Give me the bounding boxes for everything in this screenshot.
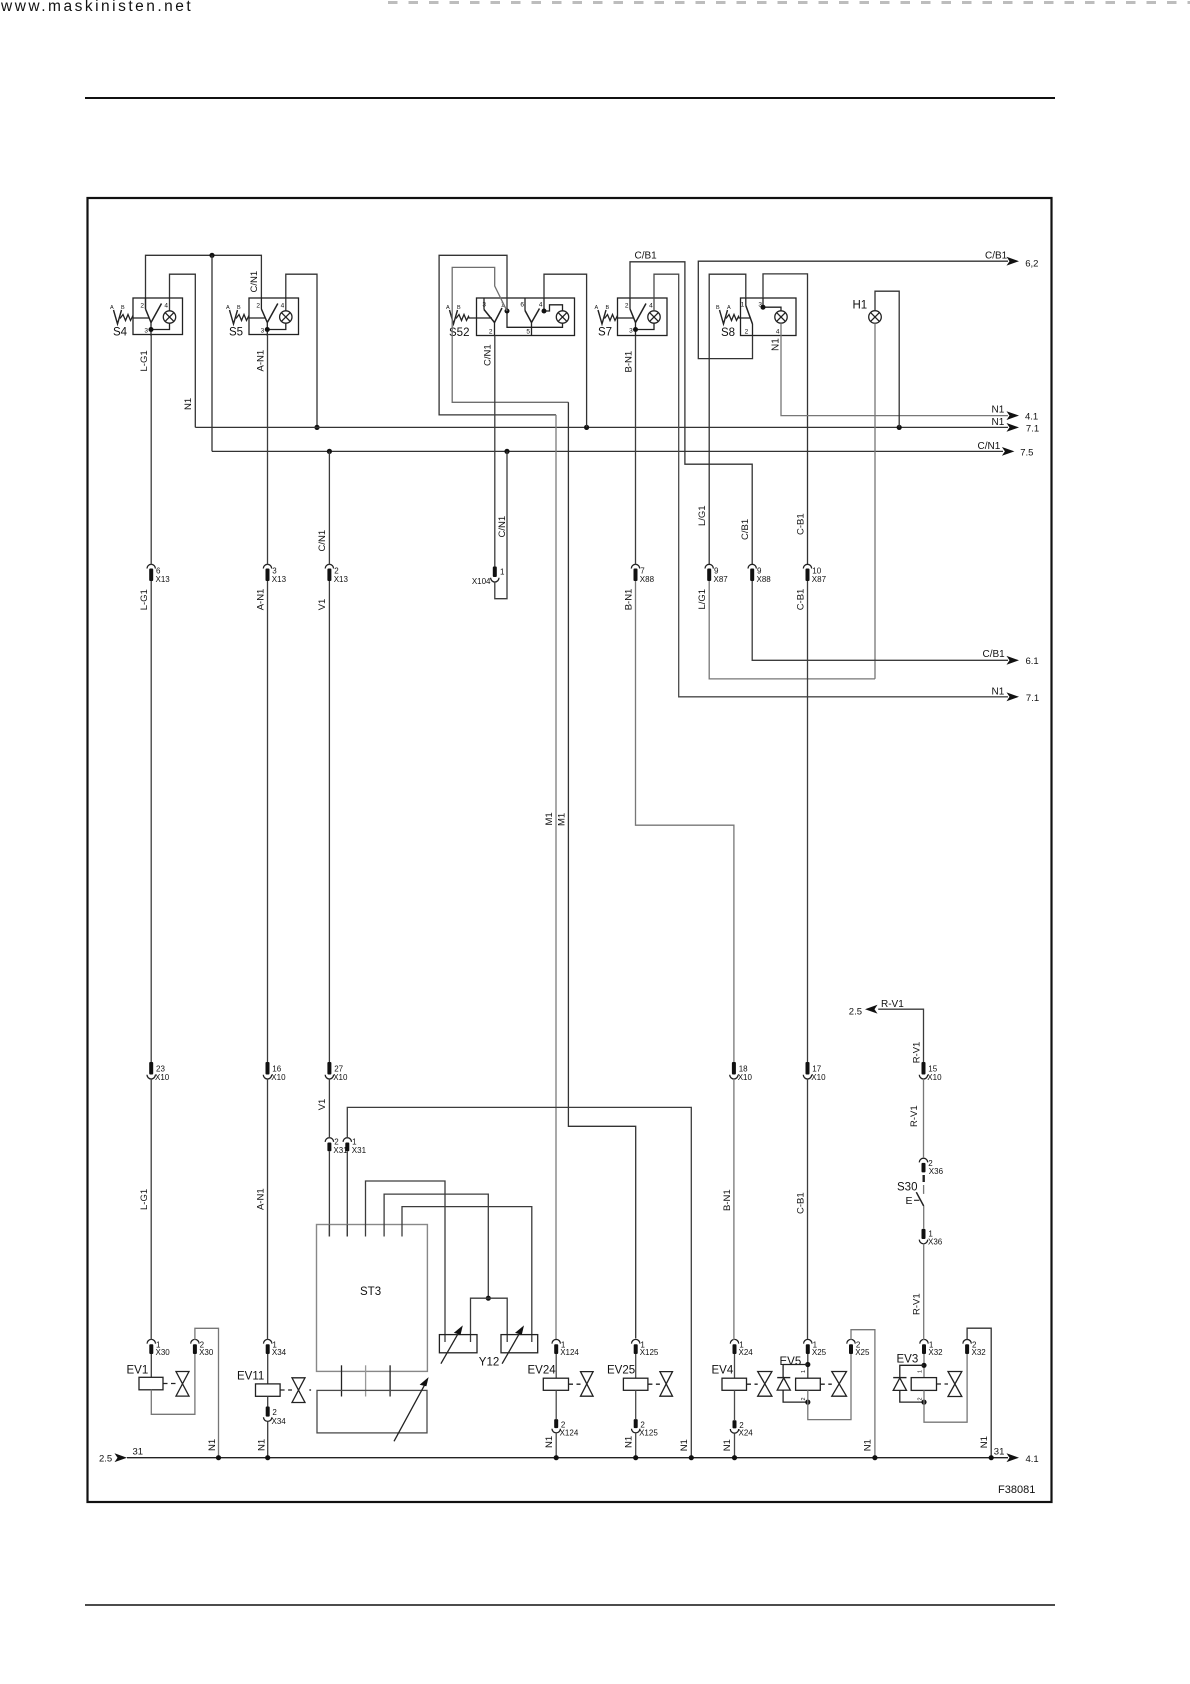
svg-text:C-B1: C-B1 [795, 589, 806, 611]
pin stub ST3 bottom 3 [389, 1365, 391, 1396]
svg-text:2: 2 [140, 303, 144, 310]
svg-text:3: 3 [261, 328, 265, 335]
connector X32 pin 1 [920, 1339, 928, 1343]
svg-text:N1: N1 [544, 1436, 555, 1448]
svg-text:4.1: 4.1 [1025, 412, 1038, 423]
wire ST3 pin5 jog to Y12 right [402, 1207, 532, 1342]
svg-text:N1: N1 [623, 1436, 634, 1448]
pin stub ST3 top 2 [346, 1225, 348, 1237]
svg-text:C/B1: C/B1 [985, 251, 1008, 262]
connector X125 pin 2 [634, 1419, 638, 1428]
svg-text:X88: X88 [640, 575, 655, 584]
connector X30 pin 1 [147, 1339, 155, 1343]
svg-text:B-N1: B-N1 [623, 351, 634, 373]
svg-text:A: A [727, 305, 731, 311]
svg-text:X25: X25 [812, 1348, 827, 1357]
arrow 31 from 2.5 [115, 1453, 128, 1462]
top scan dashes [388, 1, 1190, 4]
svg-text:N1: N1 [863, 1439, 874, 1451]
svg-text:H1: H1 [853, 300, 868, 312]
arrow Y12 left variable [441, 1329, 461, 1364]
svg-text:X10: X10 [927, 1073, 942, 1082]
svg-text:N1: N1 [679, 1439, 690, 1451]
svg-text:V1: V1 [317, 599, 328, 611]
connector X13 pin 2 [325, 564, 333, 568]
wire S8 lamp N1 to 4.1 arrow [781, 323, 1008, 415]
svg-text:7.1: 7.1 [1026, 424, 1039, 435]
svg-text:C/N1: C/N1 [497, 516, 508, 538]
svg-text:R-V1: R-V1 [909, 1105, 920, 1127]
connector X104 pin 1 [493, 567, 497, 578]
wire H1 top to N1 bus [875, 291, 899, 427]
wire C/B1 X88:9 to 6.1 arrow [752, 581, 1008, 660]
svg-text:3: 3 [144, 328, 148, 335]
svg-text:2.5: 2.5 [99, 1454, 112, 1465]
svg-text:L/G1: L/G1 [697, 505, 708, 526]
node rail EV5 [872, 1455, 877, 1460]
svg-text:S30: S30 [897, 1182, 917, 1194]
wire H1 bottom to L/G1 [874, 323, 876, 679]
svg-text:L-G1: L-G1 [139, 589, 150, 610]
svg-text:X88: X88 [757, 575, 772, 584]
connector X36 pin 2 [919, 1158, 927, 1162]
arrow N1 to 4.1 [1007, 411, 1020, 420]
SECTION:CONNROW1 [147, 564, 827, 586]
connector X124 pin 2 [554, 1419, 558, 1428]
svg-text:6,2: 6,2 [1025, 259, 1038, 270]
svg-text:N1: N1 [992, 686, 1005, 697]
wire A-N1 S5 to X13:3 [267, 335, 269, 565]
svg-text:B: B [237, 305, 241, 311]
svg-text:A: A [110, 305, 114, 311]
svg-text:L-G1: L-G1 [139, 1189, 150, 1210]
switch S8 [720, 298, 797, 336]
wire S52 pin4 to N1 bus [544, 274, 587, 427]
wire R-V1 X10:15 to X36:2 [923, 1079, 925, 1158]
svg-text:X125: X125 [640, 1348, 659, 1357]
arrow N1 to 7.1 [1007, 423, 1020, 432]
svg-text:N1: N1 [992, 417, 1005, 428]
svg-text:C/B1: C/B1 [983, 649, 1006, 660]
svg-text:5: 5 [526, 329, 530, 336]
connector X24 pin 2 [733, 1420, 737, 1428]
svg-text:X10: X10 [271, 1073, 286, 1082]
svg-text:X24: X24 [739, 1429, 754, 1438]
wire C/N1-V1 bus tap to X13:2 [328, 451, 330, 564]
connector X10 pin 16 [266, 1062, 270, 1075]
svg-text:N1: N1 [207, 1439, 218, 1451]
pin stub ST3 bottom 2 [365, 1365, 367, 1396]
svg-text:C-B1: C-B1 [795, 513, 806, 535]
wire Y12 centre U split [471, 1298, 508, 1342]
node rail EV3 [989, 1455, 994, 1460]
svg-text:B-N1: B-N1 [623, 589, 634, 611]
wire B-N1 X10:18 to X24:1 [733, 1079, 735, 1340]
svg-text:X25: X25 [855, 1348, 870, 1357]
wire C/N1 dropper from top bus [211, 255, 213, 451]
svg-text:N1: N1 [992, 405, 1005, 416]
wire S52 pin1 feed A [439, 255, 556, 415]
svg-text:C/N1: C/N1 [249, 271, 260, 293]
svg-text:X10: X10 [155, 1073, 170, 1082]
node rail EV24 [554, 1455, 559, 1460]
connector X10 pin 15 [922, 1062, 926, 1075]
svg-text:B-N1: B-N1 [722, 1189, 733, 1211]
svg-text:X10: X10 [333, 1073, 348, 1082]
svg-text:X13: X13 [272, 575, 287, 584]
svg-text:EV4: EV4 [712, 1365, 734, 1377]
svg-text:1: 1 [917, 1370, 923, 1373]
switch S5 [230, 298, 299, 336]
svg-text:4: 4 [164, 303, 168, 310]
connector X10 pin 27 [327, 1062, 331, 1075]
sensor box ST3 lower [317, 1390, 427, 1433]
connector X36 pin 1 [922, 1229, 926, 1239]
svg-text:A: A [595, 305, 599, 311]
wire L-G1 X13:6 to X10:23 [150, 581, 152, 1062]
switch S4 [114, 298, 183, 336]
arrow N1 to 7.1 lower [1007, 692, 1020, 701]
svg-text:X36: X36 [928, 1238, 943, 1247]
svg-text:S5: S5 [229, 327, 243, 339]
wire V1 X31:2 to ST3 [328, 1151, 330, 1236]
node Y12 centre junction [486, 1296, 491, 1301]
svg-text:B: B [606, 305, 610, 311]
svg-text:X30: X30 [156, 1348, 171, 1357]
svg-text:EV24: EV24 [528, 1364, 557, 1376]
svg-text:F38081: F38081 [998, 1484, 1035, 1496]
svg-text:B: B [121, 305, 125, 311]
wire C/N1 X104 loop to bus [495, 451, 507, 598]
svg-text:X104: X104 [472, 577, 491, 586]
svg-text:R-V1: R-V1 [911, 1293, 922, 1315]
svg-text:6.1: 6.1 [1026, 656, 1039, 667]
top rule [85, 97, 1055, 99]
connector X24 pin 1 [730, 1339, 738, 1343]
svg-text:C/B1: C/B1 [635, 250, 658, 261]
svg-text:C/N1: C/N1 [978, 441, 1001, 452]
pin stub ST3 top 1 [328, 1225, 330, 1237]
svg-text:2: 2 [917, 1397, 923, 1400]
svg-text:X124: X124 [560, 1429, 579, 1438]
svg-text:1: 1 [500, 568, 505, 577]
connector X13 pin 6 [147, 564, 155, 568]
wire 31 rail [127, 1457, 1008, 1459]
arrow Y12 right variable [502, 1329, 522, 1364]
svg-text:2.5: 2.5 [849, 1007, 862, 1018]
wire S8 pin1 from L/G1 [709, 274, 746, 564]
connector X34 pin 2 [266, 1407, 270, 1417]
svg-text:2: 2 [625, 303, 629, 310]
wire R-V1 below S30 to X32:1 [923, 1244, 925, 1341]
svg-text:www.maskinisten.net: www.maskinisten.net [0, 0, 193, 15]
svg-text:3: 3 [482, 302, 486, 309]
svg-text:X125: X125 [639, 1429, 658, 1438]
svg-text:3: 3 [758, 302, 762, 309]
svg-text:A: A [446, 305, 450, 311]
svg-text:X13: X13 [156, 575, 171, 584]
node H1 drop on N1 bus [897, 425, 902, 430]
svg-text:X34: X34 [272, 1417, 287, 1426]
svg-text:N1: N1 [256, 1439, 267, 1451]
svg-text:N1: N1 [183, 398, 194, 410]
svg-text:3: 3 [629, 328, 633, 335]
arrow ST3 lower variable [394, 1381, 427, 1441]
svg-text:X36: X36 [929, 1167, 944, 1176]
svg-text:C/N1: C/N1 [317, 530, 328, 552]
connector X13 pin 3 [263, 564, 271, 568]
svg-text:A: A [226, 305, 230, 311]
wire S4 lamp loop to N1 bus [170, 274, 196, 427]
connector X10 pin 17 [806, 1062, 810, 1075]
svg-text:EV25: EV25 [607, 1364, 635, 1376]
connector X34 pin 1 [264, 1339, 272, 1343]
svg-text:X87: X87 [714, 575, 729, 584]
svg-text:31: 31 [133, 1446, 144, 1457]
frame border [88, 198, 1052, 1502]
svg-text:C/B1: C/B1 [740, 519, 751, 540]
wire ST3 pin4 jog to Y12 centre [384, 1194, 488, 1298]
wire L/G1 X87:9 to H1 jog [709, 581, 875, 679]
connector X25 pin 1 [804, 1339, 812, 1343]
svg-text:X30: X30 [199, 1348, 214, 1357]
svg-text:A-N1: A-N1 [255, 1188, 266, 1210]
svg-text:S7: S7 [598, 327, 612, 339]
svg-text:31: 31 [994, 1446, 1005, 1457]
wire C/N1 S52 pin2 to X104 [494, 336, 496, 567]
svg-text:B: B [716, 305, 720, 311]
svg-text:1: 1 [801, 1370, 807, 1373]
wire ST3 pin3 jog to Y12 left [366, 1181, 446, 1342]
wire C-B1 X87:10 to X10:17 [807, 581, 809, 1062]
svg-text:2: 2 [745, 329, 749, 336]
svg-text:4: 4 [649, 303, 653, 310]
svg-text:M1: M1 [556, 813, 567, 826]
svg-text:EV1: EV1 [127, 1365, 149, 1377]
svg-text:N1: N1 [771, 338, 782, 351]
wire A-N1 X13:3 to X10:16 [267, 581, 269, 1062]
svg-text:4.1: 4.1 [1026, 1454, 1039, 1465]
wire V1 X13:2 to X10:27 [328, 581, 330, 1062]
svg-text:S4: S4 [113, 327, 128, 339]
svg-text:ST3: ST3 [360, 1286, 381, 1298]
node rail EV4 [732, 1455, 737, 1460]
connector X30 pin 2 [191, 1339, 199, 1343]
wire S8 pin3 to C-B1 line [763, 274, 808, 565]
control unit ST3 [317, 1225, 428, 1372]
node rail EV25 [633, 1455, 638, 1460]
connector X124 pin 1 [552, 1339, 560, 1343]
svg-text:X10: X10 [811, 1073, 826, 1082]
arrow C/B1 to 6,2 [1007, 257, 1020, 266]
connector X88 pin 9 [748, 564, 756, 568]
wire A-N1 X10:16 to X34:1 [267, 1079, 269, 1340]
svg-text:6: 6 [520, 302, 524, 309]
arrow C/N1 to 7.5 [1002, 447, 1015, 456]
switch S52 [450, 298, 575, 336]
SECTION:LONGWIRES [151, 335, 1008, 1457]
svg-text:X34: X34 [272, 1348, 287, 1357]
svg-text:1: 1 [741, 302, 745, 309]
svg-text:4: 4 [776, 329, 780, 336]
wire S7 pin2 C/B1 drop to X88:9 and 6.1 [630, 262, 752, 565]
svg-text:X124: X124 [560, 1348, 579, 1357]
node V1 tap on C/N1 bus [327, 449, 332, 454]
node S52 pin4 drop on N1 bus [584, 425, 589, 430]
node S5 lamp loop on N1 bus [314, 425, 319, 430]
wire S5 lamp loop [286, 274, 317, 427]
svg-text:2: 2 [256, 303, 260, 310]
wire C-B1 X10:17 to X25:1 [807, 1079, 809, 1339]
node rail ST3 return [689, 1455, 694, 1460]
svg-text:2: 2 [489, 329, 493, 336]
svg-text:4: 4 [281, 303, 285, 310]
wire X31:1 feed jog to rail [347, 1107, 691, 1457]
wire B-N1 X88:7 jog to X10:18 [636, 581, 734, 1062]
connector X10 pin 23 [149, 1062, 153, 1075]
svg-text:N1: N1 [722, 1439, 733, 1451]
svg-text:X13: X13 [334, 575, 349, 584]
wire N1 7.1 bus [195, 426, 1008, 428]
svg-text:X31: X31 [352, 1146, 367, 1155]
svg-text:Y12: Y12 [479, 1357, 499, 1369]
wire S8 pin2 to C/B1 6,2 arrow [698, 261, 1008, 358]
connector X25 pin 2 [847, 1339, 855, 1343]
node bus S4-S5 top junction [209, 253, 214, 258]
svg-text:EV3: EV3 [897, 1354, 919, 1366]
pin stub ST3 bottom 1 [341, 1365, 343, 1396]
connector X32 pin 2 [963, 1339, 971, 1343]
svg-text:X10: X10 [738, 1073, 753, 1082]
bottom rule [85, 1604, 1055, 1606]
wire L-G1 S4 to X13:6 [150, 335, 152, 565]
arrow C/B1 to 6.1 [1007, 656, 1020, 665]
wire R-V1 arrow feed [878, 1009, 923, 1062]
connector X125 pin 1 [632, 1339, 640, 1343]
node X104 loop tap on C/N1 bus [504, 449, 509, 454]
svg-text:C-B1: C-B1 [795, 1192, 806, 1214]
svg-text:S8: S8 [721, 327, 735, 339]
svg-text:M1: M1 [544, 812, 555, 825]
svg-text:L/G1: L/G1 [697, 589, 708, 610]
svg-text:2: 2 [801, 1397, 807, 1400]
svg-text:2: 2 [272, 1408, 277, 1417]
svg-text:X32: X32 [928, 1348, 943, 1357]
svg-text:N1: N1 [979, 1436, 990, 1448]
svg-text:4: 4 [539, 302, 543, 309]
SECTION:TOPBUSES [146, 253, 1009, 454]
svg-text:A-N1: A-N1 [255, 589, 266, 611]
svg-text:R-V1: R-V1 [911, 1042, 922, 1064]
connector X31 pin 1 [343, 1138, 351, 1142]
svg-text:X24: X24 [739, 1348, 754, 1357]
node rail EV11 [265, 1455, 270, 1460]
svg-text:A-N1: A-N1 [255, 350, 266, 372]
wire bus S4-S5 top [146, 255, 262, 309]
connector X87 pin 10 [803, 564, 811, 568]
node rail EV1 [216, 1455, 221, 1460]
svg-text:B: B [457, 305, 461, 311]
svg-text:X87: X87 [812, 575, 827, 584]
svg-text:X32: X32 [972, 1348, 987, 1357]
svg-text:C/N1: C/N1 [482, 344, 493, 366]
wire B-N1 S7 to X88:7 [635, 336, 637, 565]
connector X87 pin 9 [705, 564, 713, 568]
connector X31 pin 2 [325, 1138, 333, 1142]
svg-text:7.5: 7.5 [1020, 448, 1033, 459]
switch S7 [598, 298, 667, 336]
svg-text:R-V1: R-V1 [881, 999, 904, 1010]
arrow 31 to 4.1 [1007, 1453, 1020, 1462]
svg-text:7.1: 7.1 [1026, 693, 1039, 704]
wire X31:1 to ST3 [346, 1151, 348, 1236]
svg-text:V1: V1 [317, 1099, 328, 1111]
wire C/N1 7.5 bus [212, 450, 1003, 452]
svg-text:E: E [906, 1195, 913, 1207]
svg-text:L-G1: L-G1 [139, 350, 150, 371]
wire S52 pin1 feed B (M1 to EV25) [452, 267, 568, 402]
wire L-G1 X10:23 to X30:1 [150, 1079, 152, 1340]
wire V1 X10:27 to X31:2 [328, 1079, 330, 1138]
connector X10 pin 18 [732, 1062, 736, 1075]
arrow R-V1 from 2.5 [865, 1005, 878, 1014]
svg-text:EV11: EV11 [237, 1371, 264, 1383]
connector X88 pin 7 [631, 564, 639, 568]
wire S7 lamp to N1 7.1 [654, 274, 1008, 697]
